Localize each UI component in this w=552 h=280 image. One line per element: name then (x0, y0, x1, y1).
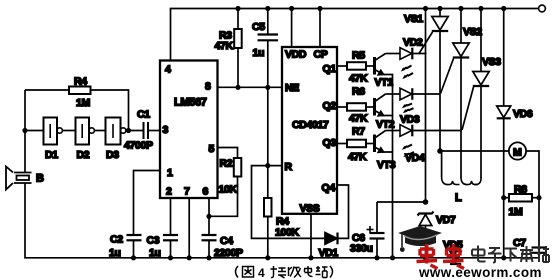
wire bottom ground rail (25, 183, 539, 258)
inverter D2 (76, 118, 90, 145)
svg-text:Q2: Q2 (323, 100, 337, 112)
wire to pin3 (148, 130, 160, 132)
svg-text:LM567: LM567 (174, 97, 207, 109)
svg-text:3: 3 (163, 124, 169, 136)
wire (94, 130, 105, 132)
node junction left input (22, 128, 27, 133)
svg-text:VS3: VS3 (482, 56, 501, 68)
resistor R4 1M (feedback) (25, 89, 69, 91)
caption (图 4 接收电路) (236, 266, 254, 278)
capacitor C2 1u (127, 235, 142, 240)
wire VDD pin to rail (291, 9, 293, 48)
svg-text:B: B (36, 173, 44, 185)
capacitor C4 2200P (202, 235, 217, 240)
transistor Q VT2 (373, 98, 376, 116)
node junction R8 left (501, 195, 506, 200)
wire pin8 to NE (218, 86, 283, 88)
wire pin2 to C3 (170, 198, 172, 235)
wire input chain (25, 130, 44, 132)
LED VD4 (400, 125, 412, 137)
wire CP pin to rail (319, 9, 321, 48)
thyristor VS3 (478, 6, 483, 11)
svg-text:VD7: VD7 (436, 214, 456, 226)
capacitor C6 330u electrolytic (376, 202, 378, 233)
svg-text:M: M (513, 147, 522, 159)
svg-text:5: 5 (209, 143, 215, 155)
thyristor VS1 (437, 6, 442, 11)
svg-text:www.eeworm.com: www.eeworm.com (418, 265, 542, 280)
svg-text:4: 4 (165, 64, 171, 76)
diode VD5 (455, 246, 457, 264)
svg-text:47K: 47K (349, 113, 368, 125)
op-amp U1 LM567 (160, 61, 218, 199)
transducer B (6, 167, 32, 190)
wire pin1 to C2 (134, 171, 161, 235)
node junction D3 output (126, 128, 131, 133)
capacitor C1 4700P (144, 122, 149, 139)
wire VD column supply line (425, 9, 427, 203)
svg-text:VS2: VS2 (463, 26, 482, 38)
resistor R3 47K (237, 9, 239, 30)
resistor R4 100K (267, 166, 269, 198)
LED arrows (402, 104, 414, 114)
wire collector to VD4 (386, 130, 401, 132)
watermark graduation cap logo (398, 226, 442, 252)
inverter D3 (106, 118, 121, 145)
svg-text:2: 2 (166, 186, 172, 198)
svg-text:6: 6 (203, 186, 209, 198)
inductor L tapped coil (441, 151, 443, 177)
svg-text:NE: NE (285, 82, 299, 94)
svg-text:D2: D2 (77, 149, 90, 161)
capacitor C3 1u (163, 235, 178, 240)
svg-text:1: 1 (167, 167, 173, 179)
wire collector to VD2 (386, 53, 401, 55)
resistor R6 47K on Q2 (337, 106, 347, 108)
node junction on R wire (265, 163, 270, 168)
svg-text:D3: D3 (106, 149, 119, 161)
svg-text:R: R (285, 161, 293, 173)
svg-text:R2: R2 (220, 158, 233, 170)
svg-text:4700P: 4700P (124, 140, 153, 152)
svg-text:CP: CP (314, 49, 328, 61)
diode VD6 (501, 6, 506, 11)
svg-text:L: L (455, 192, 462, 204)
svg-text:47K: 47K (348, 151, 367, 163)
node junction C5 bottom (265, 85, 270, 90)
svg-text:Q4: Q4 (322, 182, 336, 194)
node junction R3 bottom (235, 85, 240, 90)
wire (62, 130, 75, 132)
capacitor C5 1u (267, 9, 269, 35)
svg-text:47K: 47K (215, 40, 234, 52)
wire to motor (440, 150, 509, 152)
svg-text:R6: R6 (352, 86, 365, 98)
svg-text:VSS: VSS (300, 203, 320, 215)
wire R pin (252, 166, 326, 239)
inverter D1 (44, 118, 58, 145)
wire top supply rail (171, 9, 539, 61)
svg-text:C3: C3 (147, 235, 160, 247)
svg-text:VS1: VS1 (404, 13, 423, 25)
terminal +V open circle (539, 5, 546, 12)
capacitor C7 (532, 248, 547, 253)
diode VD1 (325, 233, 337, 245)
watermark red characters 虫虫 (417, 244, 465, 269)
svg-text:C4: C4 (220, 235, 233, 247)
svg-text:VD1: VD1 (319, 247, 339, 259)
svg-text:C5: C5 (252, 21, 265, 33)
svg-text:1u: 1u (149, 247, 161, 259)
svg-text:R8: R8 (514, 184, 527, 196)
svg-text:1u: 1u (253, 47, 265, 59)
transistor Q VT1 (373, 57, 376, 75)
svg-text:R5: R5 (352, 50, 365, 62)
svg-text:C2: C2 (110, 234, 123, 246)
svg-text:CD4017: CD4017 (292, 119, 329, 131)
wire input vertical (24, 90, 26, 172)
thyristor VS2 (458, 6, 463, 11)
svg-text:VD2: VD2 (403, 37, 423, 49)
svg-text:R4: R4 (74, 76, 87, 88)
node junction pin6/R2 (206, 214, 211, 219)
svg-text:330u: 330u (350, 243, 373, 255)
svg-text:1M: 1M (76, 97, 90, 109)
LED arrows (402, 145, 414, 158)
wire zener node (377, 201, 426, 203)
svg-text:4: 4 (258, 266, 265, 280)
wire pin7 to ground (188, 198, 190, 258)
svg-text:1u: 1u (109, 247, 121, 259)
svg-text:Q1: Q1 (323, 63, 337, 75)
resistor R2 10K on pin5 (218, 148, 238, 159)
svg-text:VT2: VT2 (376, 119, 395, 131)
wire collector to VD3 (386, 93, 401, 95)
svg-text:10K: 10K (219, 184, 238, 196)
watermark text 电子下载站 (472, 246, 549, 263)
svg-text:7: 7 (184, 186, 190, 198)
svg-text:VDD: VDD (285, 49, 307, 61)
svg-text:C1: C1 (137, 109, 150, 121)
node junction VD7 top (423, 199, 429, 205)
wire VSS to ground (310, 214, 312, 258)
resistor R7 47K on Q3 (337, 143, 347, 145)
transistor Q VT3 (373, 135, 376, 153)
IC U2 CD4017 (282, 47, 337, 214)
zener VD7 (419, 215, 432, 226)
wire motor right (526, 151, 539, 258)
svg-text:100K: 100K (275, 227, 299, 239)
LED VD3 (400, 88, 412, 100)
svg-text:VD3: VD3 (400, 114, 420, 126)
svg-text:R7: R7 (352, 126, 365, 138)
svg-text:VD6: VD6 (513, 108, 533, 120)
svg-text:Q3: Q3 (323, 137, 337, 149)
svg-text:C7: C7 (513, 237, 526, 249)
svg-text:D1: D1 (45, 149, 58, 161)
wire C5 line down to R pin wire (267, 87, 269, 165)
motor M (509, 142, 526, 159)
LED VD2 (400, 48, 412, 60)
svg-text:1M: 1M (509, 206, 523, 218)
wire pin6 down (208, 198, 210, 235)
node junction R8 right (536, 195, 541, 200)
node junction VS1 cathode / motor wire (437, 148, 443, 154)
svg-text:2200P: 2200P (214, 247, 243, 259)
wire (126, 130, 144, 132)
svg-text:47K: 47K (349, 73, 368, 85)
svg-text:VT1: VT1 (375, 77, 394, 89)
svg-text:VT3: VT3 (377, 159, 396, 171)
svg-text:8: 8 (205, 81, 211, 93)
resistor R5 47K on Q1 (337, 65, 347, 67)
LED arrows (401, 66, 413, 80)
resistor R8 1M (504, 197, 509, 199)
